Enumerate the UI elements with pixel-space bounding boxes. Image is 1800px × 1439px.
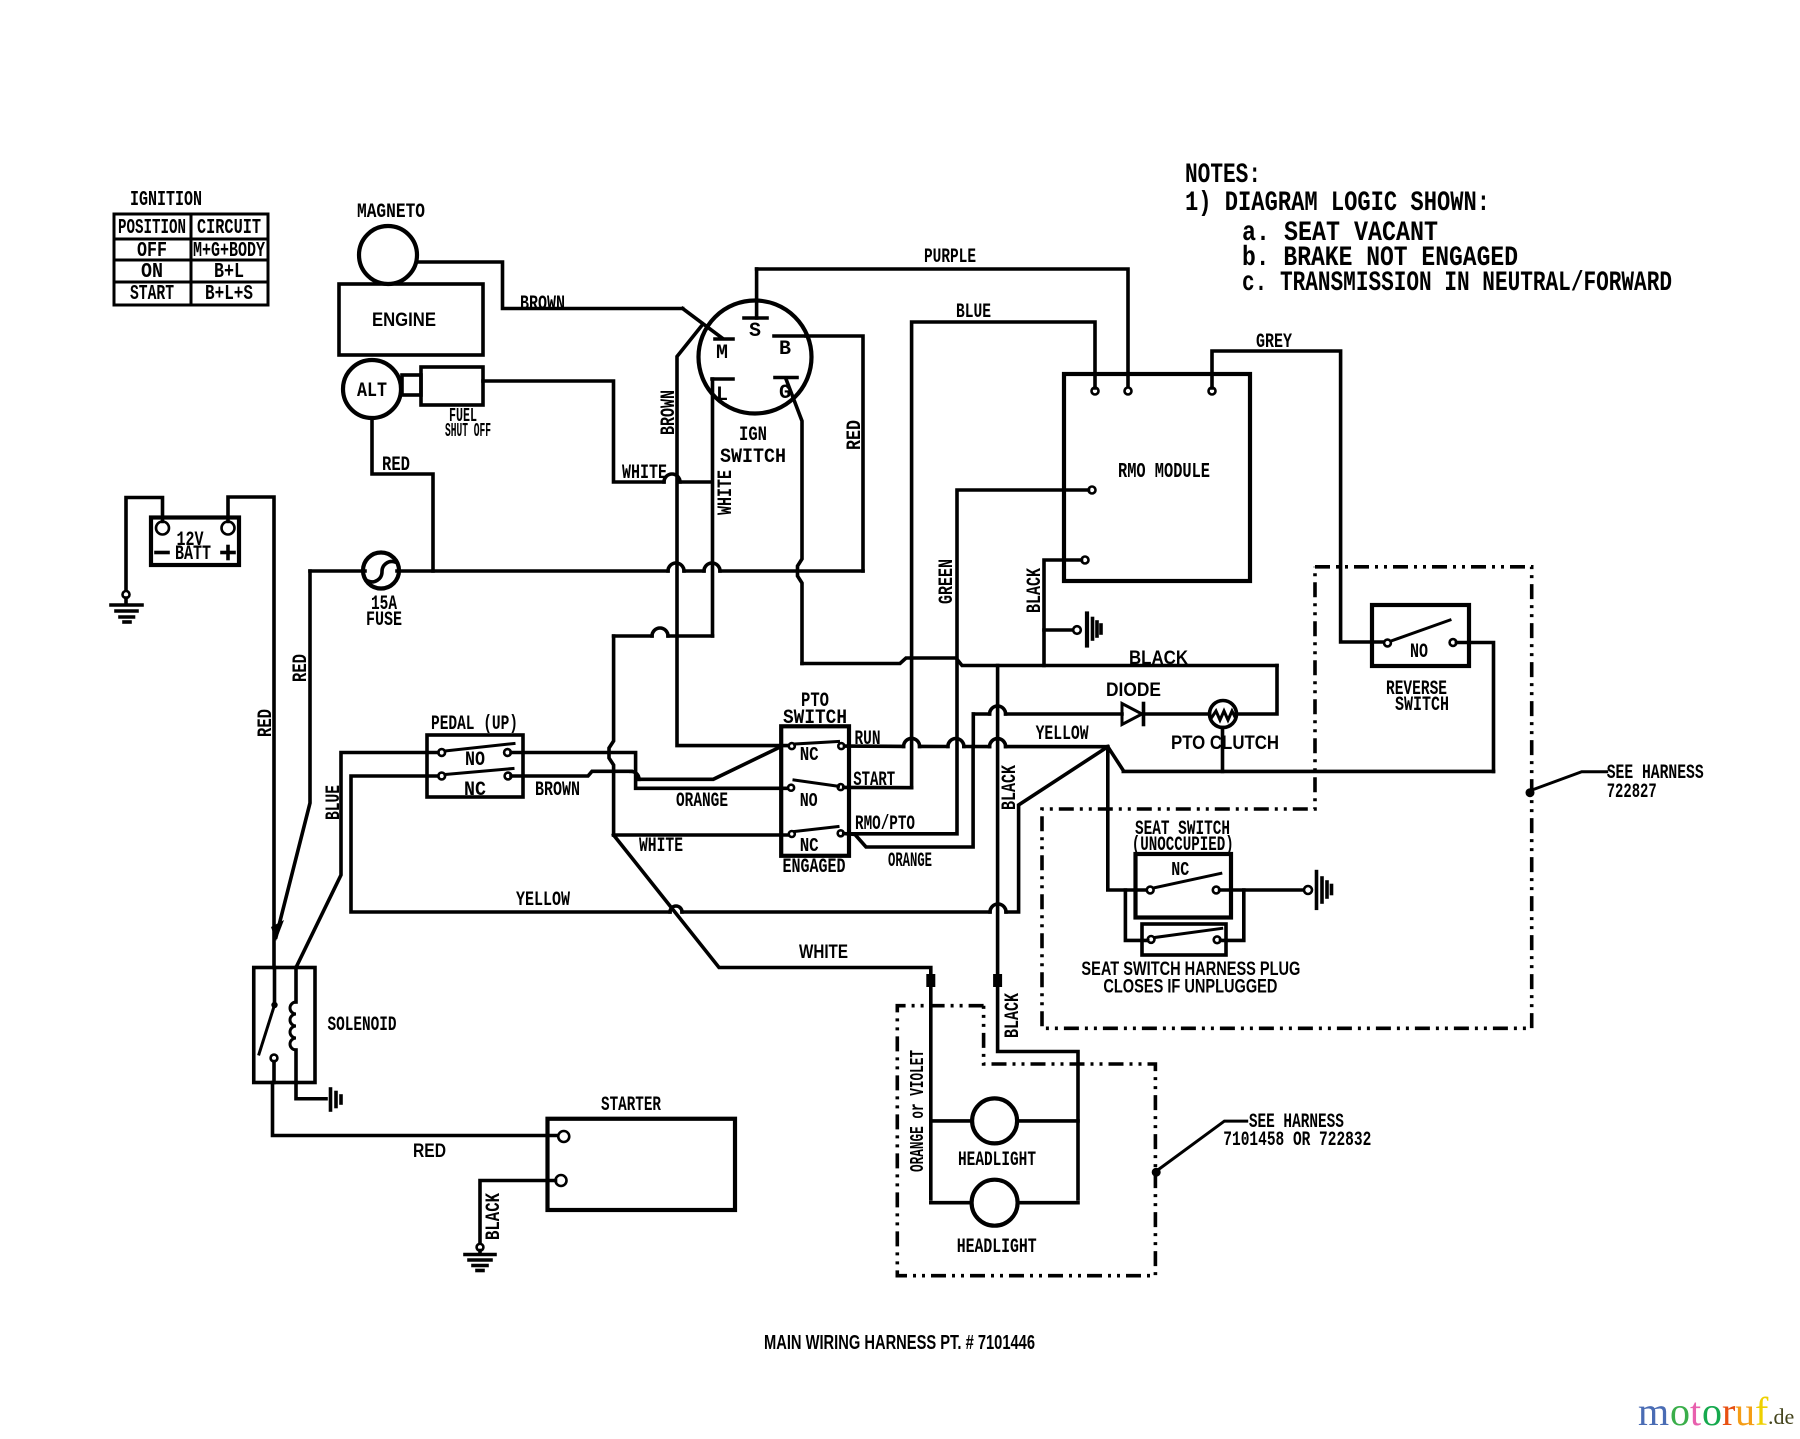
svg-text:NC: NC <box>800 835 819 857</box>
reverse switch <box>1372 605 1469 717</box>
blue wire pedal NO to solenoid coil <box>296 753 438 968</box>
seat switch feed from yellow junction <box>1108 747 1147 890</box>
svg-text:PEDAL (UP): PEDAL (UP) <box>431 713 518 736</box>
svg-text:o: o <box>1702 1389 1722 1434</box>
svg-text:START: START <box>130 283 174 306</box>
svg-text:RMO/PTO: RMO/PTO <box>855 813 915 836</box>
svg-text:NOTES:: NOTES: <box>1185 160 1261 191</box>
motoruf.de watermark logo <box>1638 1389 1794 1434</box>
svg-text:NC: NC <box>1171 859 1189 881</box>
blue wire RMO to START <box>912 322 1095 788</box>
svg-text:t: t <box>1690 1389 1701 1434</box>
svg-text:S: S <box>749 320 761 343</box>
headlight upper <box>931 1098 1078 1172</box>
RMO pin (grey) <box>1209 388 1216 395</box>
battery 12V <box>151 518 239 567</box>
svg-text:RED: RED <box>255 709 278 737</box>
RMO pin (purple) <box>1125 388 1132 395</box>
svg-text:L: L <box>716 384 728 407</box>
svg-text:BROWN: BROWN <box>520 293 565 316</box>
orange wire RMO/PTO terminal to diode junction <box>844 747 973 848</box>
svg-text:BLACK: BLACK <box>1024 568 1047 613</box>
svg-text:HEADLIGHT: HEADLIGHT <box>958 1149 1036 1172</box>
svg-text:POSITION: POSITION <box>118 217 186 240</box>
ground (RMO module) <box>1044 614 1101 646</box>
svg-text:RED: RED <box>844 420 867 450</box>
svg-text:u: u <box>1735 1389 1755 1434</box>
grey wire RMO to reverse switch <box>1212 351 1384 642</box>
svg-text:BROWN: BROWN <box>535 779 580 802</box>
alternator ALT <box>343 360 401 418</box>
ground (seat switch) <box>1304 872 1332 909</box>
svg-text:STARTER: STARTER <box>601 1094 661 1117</box>
wire battery positive to red rail <box>228 497 274 968</box>
wire clutch bottom tap to yellow rail <box>1221 728 1225 772</box>
svg-text:m: m <box>1638 1389 1669 1434</box>
wire battery negative to ground <box>126 498 163 592</box>
svg-text:f: f <box>1755 1389 1769 1434</box>
svg-text:ORANGE or VIOLET: ORANGE or VIOLET <box>907 1050 929 1172</box>
svg-text:PTO CLUTCH: PTO CLUTCH <box>1171 733 1279 754</box>
svg-text:ORANGE: ORANGE <box>676 790 728 813</box>
svg-text:7101458 OR 722832: 7101458 OR 722832 <box>1223 1129 1371 1152</box>
svg-text:ALT: ALT <box>357 380 387 403</box>
arrowhead at red rail junction <box>271 920 284 941</box>
wire fuse to ign switch B : hops over brown and white verticals <box>397 563 863 571</box>
diode wire with hop over black vertical <box>973 706 1209 714</box>
svg-text:NO: NO <box>800 790 818 812</box>
PTO clutch <box>1171 701 1279 755</box>
engine box <box>339 284 483 355</box>
svg-text:ON: ON <box>141 261 163 284</box>
svg-text:B+L+S: B+L+S <box>205 283 253 306</box>
run wire PTO to yellow junction with hops <box>845 738 1108 746</box>
terminal B <box>774 336 806 361</box>
svg-text:c. TRANSMISSION IN NEUTRAL/FOR: c. TRANSMISSION IN NEUTRAL/FORWARD <box>1242 268 1672 299</box>
svg-text:NO: NO <box>465 749 485 772</box>
RMO pin (blue) <box>1092 388 1099 395</box>
svg-text:SOLENOID: SOLENOID <box>328 1014 397 1037</box>
svg-text:M: M <box>716 342 728 365</box>
black wire RMO pin to ground tap <box>1044 560 1082 666</box>
start wire PTO to blue <box>844 786 912 790</box>
diode tap wire from run junction <box>971 714 975 747</box>
leader line 7101458 <box>1159 1121 1247 1169</box>
green wire RMO to PTO switch RMO/PTO <box>849 490 1089 834</box>
svg-text:BLACK: BLACK <box>999 765 1022 810</box>
connector on black wire <box>993 974 1002 987</box>
black wire starter to ground <box>480 1181 556 1244</box>
ground (starter) <box>465 1244 495 1271</box>
svg-text:BLACK: BLACK <box>483 1193 506 1240</box>
plug parallel wires <box>1125 890 1147 940</box>
red wire solenoid to starter <box>273 1062 557 1136</box>
svg-text:CLOSES IF UNPLUGGED: CLOSES IF UNPLUGGED <box>1103 977 1277 998</box>
svg-text:M+G+BODY: M+G+BODY <box>193 240 265 263</box>
white wire fuel-shutoff branch with hop over brown <box>483 381 711 482</box>
svg-text:PURPLE: PURPLE <box>924 246 976 269</box>
svg-text:FUSE: FUSE <box>366 609 402 632</box>
headlight lower <box>931 1180 1078 1259</box>
solenoid <box>254 968 397 1083</box>
svg-text:o: o <box>1670 1389 1690 1434</box>
terminal L <box>712 379 733 407</box>
svg-text:GREY: GREY <box>1256 331 1292 354</box>
seat switch SEAT SWITCH (UNOCCUPIED) <box>1132 818 1234 918</box>
terminal S <box>744 318 767 343</box>
white wire diagonal to headlight feed <box>614 835 931 1199</box>
dash-dot harness boundary (722827 area) <box>1042 567 1532 1029</box>
svg-text:.de: .de <box>1768 1404 1794 1429</box>
label SEE HARNESS 7101458 OR 722832 <box>1223 1111 1371 1152</box>
svg-text:ENGINE: ENGINE <box>372 310 436 331</box>
fuse 15A <box>363 553 402 633</box>
wire pedal NC to PTO run (brown) with arc step <box>511 748 779 780</box>
connector on white wire <box>926 974 935 987</box>
RMO module <box>1064 374 1250 581</box>
wire B to fuse rail (red) <box>806 336 863 571</box>
leader line 722827 <box>1532 772 1607 790</box>
terminal M <box>715 339 733 365</box>
wire alt to fuse junction (red) <box>372 418 433 571</box>
svg-text:NC: NC <box>464 779 486 802</box>
black wire G-rail to diode/clutch rail with jog between blue and green <box>802 658 1277 666</box>
magneto <box>357 201 425 284</box>
svg-text:HEADLIGHT: HEADLIGHT <box>957 1236 1037 1259</box>
ground (battery) <box>111 591 142 622</box>
wire tap down from fuse feed <box>276 571 310 937</box>
svg-text:B: B <box>779 338 791 361</box>
PTO switch <box>781 690 849 879</box>
svg-text:BLACK: BLACK <box>1129 648 1188 669</box>
svg-text:WHITE: WHITE <box>799 942 848 963</box>
svg-text:GREEN: GREEN <box>936 559 959 604</box>
svg-text:BLACK: BLACK <box>1002 993 1025 1038</box>
fuel shut off <box>402 367 491 442</box>
seat switch harness plug <box>1142 924 1226 955</box>
svg-text:722827: 722827 <box>1607 781 1657 804</box>
svg-text:BLUE: BLUE <box>956 301 991 324</box>
svg-text:YELLOW: YELLOW <box>1036 723 1089 746</box>
svg-text:WHITE: WHITE <box>715 470 738 515</box>
svg-text:B+L: B+L <box>214 261 244 284</box>
wire G down (black rail) with crossover jog at fuse wire <box>786 379 802 664</box>
dash-dot headlight harness boundary <box>897 1006 1155 1276</box>
svg-text:BLUE: BLUE <box>323 785 346 820</box>
brown wire: tap from magneto wire down to PTO switch <box>677 324 788 746</box>
svg-text:DIODE: DIODE <box>1106 680 1161 701</box>
RMO pin (green) <box>1089 487 1096 494</box>
ignition position/circuit table <box>114 189 268 306</box>
wire white: L terminal down, jog left, down to pedal area <box>609 379 713 835</box>
svg-text:SWITCH: SWITCH <box>1395 694 1449 717</box>
svg-text:NC: NC <box>800 744 819 766</box>
svg-text:ORANGE: ORANGE <box>888 850 932 873</box>
terminal G <box>775 378 797 406</box>
svg-text:OFF: OFF <box>137 240 167 263</box>
svg-text:RMO MODULE: RMO MODULE <box>1118 461 1210 484</box>
diode symbol <box>1122 704 1144 725</box>
svg-text:r: r <box>1722 1389 1735 1434</box>
svg-text:BROWN: BROWN <box>658 390 681 435</box>
svg-text:1) DIAGRAM LOGIC SHOWN:: 1) DIAGRAM LOGIC SHOWN: <box>1185 188 1490 219</box>
svg-text:WHITE: WHITE <box>639 835 683 858</box>
svg-text:NO: NO <box>1410 641 1428 664</box>
harness dot 7101458 <box>1152 1168 1161 1177</box>
solenoid coil ground <box>296 1083 341 1111</box>
RMO pin (black gnd) <box>1082 557 1089 564</box>
purple wire S to RMO module <box>757 269 1128 388</box>
svg-text:BATT: BATT <box>175 543 211 566</box>
svg-text:CIRCUIT: CIRCUIT <box>197 217 261 240</box>
notes text block <box>1185 160 1672 299</box>
svg-text:RED: RED <box>382 454 410 477</box>
wire seat switch to ground <box>1220 888 1304 892</box>
wire pedal NO to PTO start (orange) <box>511 753 788 789</box>
black vertical wire to headlights <box>998 666 1078 1200</box>
pedal switch PEDAL (UP) <box>427 713 523 802</box>
white wire to PTO bottom NC <box>614 833 788 837</box>
label SEE HARNESS 722827 <box>1607 762 1704 804</box>
yellow wire pedal NC to junction, long run <box>351 747 1108 912</box>
svg-text:MAGNETO: MAGNETO <box>357 201 425 224</box>
ignition switch IGN SWITCH <box>699 301 812 470</box>
svg-text:RED: RED <box>413 1141 446 1162</box>
svg-text:MAIN WIRING HARNESS PT. # 7101: MAIN WIRING HARNESS PT. # 7101446 <box>764 1332 1035 1354</box>
svg-text:SHUT OFF: SHUT OFF <box>445 420 491 442</box>
wire fuse feed left stub <box>310 569 365 573</box>
wire reverse switch to yellow rail <box>1456 643 1493 772</box>
wire clutch right to black rail <box>1237 666 1278 715</box>
starter <box>548 1094 736 1210</box>
yellow wire junction down to clutch rail and reverse switch <box>1108 747 1494 772</box>
svg-text:IGNITION: IGNITION <box>130 189 202 212</box>
svg-text:IGN: IGN <box>739 424 767 447</box>
svg-text:ENGAGED: ENGAGED <box>783 856 846 879</box>
svg-text:YELLOW: YELLOW <box>516 889 570 912</box>
wire magneto to ign switch M (brown) <box>417 262 683 309</box>
wire S to purple run <box>755 269 759 318</box>
svg-text:WHITE: WHITE <box>622 462 667 485</box>
svg-text:SWITCH: SWITCH <box>720 446 786 469</box>
harness dot 722827 <box>1526 788 1535 797</box>
